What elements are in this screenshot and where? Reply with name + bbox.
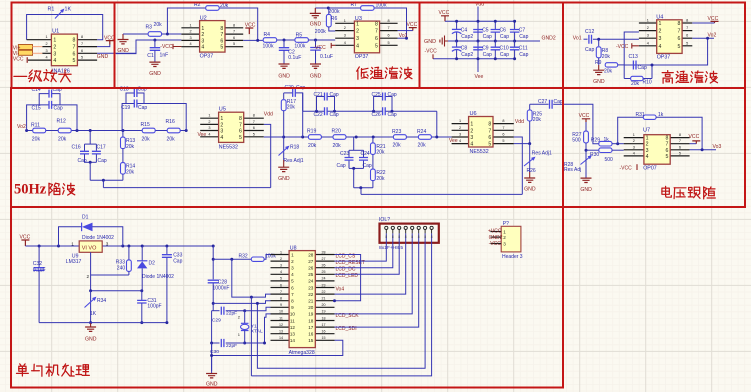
svg-text:8: 8 (73, 38, 76, 44)
svg-text:5: 5 (677, 44, 680, 50)
svg-text:U8: U8 (290, 246, 297, 252)
capacitor C28 column (208, 246, 230, 311)
svg-text:3: 3 (658, 36, 661, 42)
svg-text:1: 1 (208, 114, 210, 118)
svg-text:1: 1 (53, 38, 56, 44)
wire C28 node to pin7 (232, 259, 271, 297)
svg-text:20k: 20k (154, 22, 163, 28)
svg-text:R15: R15 (141, 122, 151, 128)
diode D1 loop (59, 227, 82, 246)
svg-text:7: 7 (686, 26, 688, 30)
svg-text:Diode 1N4002: Diode 1N4002 (142, 274, 174, 280)
svg-text:8: 8 (418, 235, 420, 239)
svg-text:6: 6 (280, 283, 282, 287)
input wire from C27 (563, 104, 599, 143)
svg-text:3: 3 (106, 241, 109, 246)
ground below R34 (90, 323, 92, 327)
R17 C20 chain (281, 93, 296, 137)
svg-text:U6: U6 (470, 111, 477, 117)
svg-text:6: 6 (239, 129, 242, 135)
svg-text:1: 1 (189, 23, 191, 27)
top rail (445, 20, 515, 22)
capacitor C14 loop (32, 87, 62, 105)
svg-text:C7: C7 (519, 28, 526, 34)
svg-text:3: 3 (189, 36, 191, 40)
svg-text:R19: R19 (307, 129, 317, 135)
svg-text:4: 4 (189, 42, 191, 46)
svg-text:3: 3 (53, 51, 56, 57)
svg-text:8: 8 (424, 235, 426, 239)
svg-text:500: 500 (572, 138, 581, 144)
ground below R8/R9 (598, 65, 600, 70)
svg-text:R31: R31 (636, 112, 645, 118)
op-amp U3 (335, 16, 397, 60)
resistor R21 vertical (371, 137, 386, 155)
svg-text:100k: 100k (294, 43, 305, 49)
svg-text:Cap: Cap (330, 92, 339, 98)
svg-text:3: 3 (646, 148, 649, 154)
op-amp U7 (624, 128, 690, 172)
wire pin6 to R4 (243, 39, 263, 41)
output wire Vo3 (690, 149, 716, 151)
svg-text:GND: GND (149, 71, 161, 77)
svg-text:C25: C25 (372, 92, 381, 98)
svg-text:Vee: Vee (449, 138, 458, 144)
svg-text:200k: 200k (329, 9, 340, 15)
svg-text:Vdd: Vdd (264, 111, 273, 117)
resistor R29 (591, 137, 612, 146)
svg-text:1k: 1k (658, 112, 664, 118)
svg-text:8: 8 (502, 119, 504, 123)
resistor R24 (417, 129, 431, 148)
svg-text:20k: 20k (167, 137, 176, 143)
svg-text:1: 1 (45, 35, 47, 39)
svg-text:8: 8 (677, 21, 680, 27)
svg-text:6: 6 (388, 34, 390, 38)
svg-text:C17: C17 (97, 145, 106, 151)
svg-text:R24: R24 (417, 129, 427, 135)
section label 低通滤波 (357, 67, 360, 71)
capacitor C6 (491, 20, 510, 43)
capacitor C20 loop (284, 85, 306, 111)
svg-text:Cap: Cap (138, 105, 147, 111)
diode D1 (82, 214, 115, 241)
resistor R4 (263, 32, 277, 49)
svg-text:Vo1: Vo1 (573, 36, 582, 42)
resistor R9 (595, 60, 618, 75)
svg-text:4: 4 (208, 132, 210, 136)
section label 高通滤波 (667, 71, 669, 72)
svg-text:U5: U5 (219, 107, 226, 113)
svg-text:C29: C29 (212, 317, 221, 323)
crystal Y1 (244, 311, 246, 324)
svg-text:6: 6 (375, 36, 378, 42)
svg-text:20k: 20k (126, 169, 135, 175)
svg-text:7: 7 (502, 126, 504, 130)
svg-text:GND: GND (85, 337, 97, 343)
svg-text:R11: R11 (31, 123, 40, 129)
svg-text:OP37: OP37 (200, 54, 214, 60)
svg-text:-VCC: -VCC (314, 45, 327, 51)
capacitor C19 loop (121, 100, 186, 131)
svg-text:1: 1 (503, 229, 506, 234)
ground top left of R6 (314, 8, 316, 13)
svg-text:-VCC: -VCC (620, 166, 633, 172)
notch bottom right link (354, 187, 373, 189)
svg-text:11: 11 (279, 316, 283, 320)
svg-text:VCC: VCC (689, 134, 700, 140)
svg-text:200k: 200k (315, 29, 326, 35)
port VI- (18, 50, 32, 55)
wire U5 pin5 to right rail (264, 136, 309, 138)
svg-text:9: 9 (280, 303, 282, 307)
svg-text:25: 25 (308, 272, 314, 277)
svg-text:24: 24 (308, 279, 314, 284)
svg-text:C19: C19 (121, 105, 130, 111)
svg-text:20k: 20k (142, 137, 151, 143)
wire pin7 to VCC (97, 45, 110, 47)
svg-text:19: 19 (308, 312, 314, 317)
svg-text:-VCC: -VCC (160, 44, 173, 50)
wire right node feedback from pin6 (651, 65, 653, 79)
svg-text:1: 1 (470, 122, 473, 128)
svg-text:0.1uF: 0.1uF (320, 54, 333, 60)
svg-text:Vee: Vee (198, 132, 207, 138)
svg-text:Vo1: Vo1 (399, 33, 408, 39)
resistor R33 vertical (116, 246, 132, 275)
capacitor C18 loop (120, 87, 147, 104)
wire R19-R20 (322, 136, 334, 138)
svg-text:C12: C12 (585, 29, 595, 35)
svg-text:U4: U4 (656, 15, 663, 21)
svg-text:6: 6 (73, 51, 76, 57)
svg-text:7: 7 (280, 290, 282, 294)
svg-text:GND: GND (278, 73, 290, 79)
capacitor C30 (212, 342, 220, 344)
svg-text:C32: C32 (33, 261, 42, 267)
resistor R15 (141, 122, 156, 143)
capacitor C2 (279, 40, 302, 64)
svg-text:10: 10 (290, 312, 296, 317)
svg-text:5: 5 (73, 58, 76, 64)
svg-text:OP37: OP37 (657, 54, 671, 60)
svg-text:C27: C27 (538, 99, 547, 105)
resistor R6 vertical (315, 8, 340, 35)
svg-text:6: 6 (666, 148, 669, 154)
svg-text:1: 1 (459, 119, 461, 123)
crystal cluster (206, 307, 271, 388)
svg-text:C9: C9 (482, 45, 489, 51)
svg-text:6: 6 (220, 38, 223, 44)
capacitor C22 in rail (314, 107, 339, 118)
svg-text:7: 7 (375, 29, 378, 35)
wire R9 to C13/R10 node (618, 64, 624, 66)
capacitor C12 (585, 29, 595, 53)
svg-text:12: 12 (290, 325, 296, 330)
wire R2 feedback top (167, 8, 205, 34)
svg-text:C4: C4 (461, 28, 468, 34)
svg-text:6: 6 (686, 34, 688, 38)
deep fanout wire 7 (257, 243, 425, 368)
ground below cluster (211, 343, 213, 374)
svg-text:50Hz: 50Hz (14, 182, 47, 198)
return wire right half (361, 193, 522, 195)
resistor R14 vertical (121, 149, 136, 181)
capacitor C7 (510, 20, 529, 43)
svg-text:3: 3 (459, 133, 461, 137)
svg-text:20k: 20k (287, 104, 296, 110)
wire R29 to U7 pin2 with R31 tap (612, 143, 624, 145)
svg-text:18: 18 (322, 316, 326, 320)
wire R20 to R23 (346, 136, 394, 138)
regulator U9 LM317 (66, 241, 109, 279)
resistor R3 (146, 22, 163, 36)
svg-text:U2: U2 (200, 15, 207, 21)
svg-text:7: 7 (677, 29, 680, 35)
svg-text:C10: C10 (500, 45, 509, 51)
wire GND to R3 (123, 33, 149, 35)
svg-text:5: 5 (488, 142, 491, 148)
svg-text:C23: C23 (340, 151, 349, 157)
wire notch bottom left (90, 179, 123, 181)
svg-text:R5: R5 (296, 33, 303, 39)
svg-text:Res Adj1: Res Adj1 (532, 151, 552, 157)
svg-text:7: 7 (666, 142, 669, 148)
resistor R13 vertical (121, 131, 136, 150)
svg-text:Y1: Y1 (251, 323, 257, 329)
capacitor C27 (530, 99, 563, 109)
svg-text:3: 3 (291, 266, 294, 271)
svg-text:17: 17 (322, 323, 326, 327)
wire Y1 to pin10 (245, 314, 271, 343)
resistor R30 (586, 148, 613, 163)
svg-text:6: 6 (233, 36, 235, 40)
svg-text:R34: R34 (97, 298, 106, 304)
bottom rail (39, 322, 167, 324)
capacitor C13 (624, 54, 652, 71)
svg-text:8: 8 (385, 235, 387, 239)
svg-text:5: 5 (280, 277, 282, 281)
capacitor C21 loop (314, 92, 339, 111)
svg-text:7: 7 (253, 120, 255, 124)
main 5V rail (25, 245, 79, 247)
svg-text:18: 18 (308, 318, 314, 323)
svg-text:C24: C24 (361, 151, 370, 157)
svg-text:Vo2: Vo2 (17, 124, 26, 130)
svg-text:-VCC: -VCC (489, 241, 502, 247)
section label 单片机处理 (20, 364, 21, 366)
svg-text:8: 8 (375, 21, 378, 27)
svg-text:21: 21 (322, 297, 326, 301)
svg-text:3: 3 (45, 49, 47, 53)
svg-text:Cap: Cap (388, 92, 397, 98)
svg-text:6: 6 (502, 133, 504, 137)
svg-text:VI VO: VI VO (82, 246, 97, 252)
capacitor C4 (452, 20, 473, 43)
svg-text:C21: C21 (314, 92, 323, 98)
svg-text:5: 5 (679, 151, 681, 155)
svg-text:4: 4 (470, 142, 473, 148)
svg-text:5: 5 (253, 132, 255, 136)
header fanout wires (335, 243, 387, 261)
svg-text:R10: R10 (643, 79, 652, 85)
svg-text:20k: 20k (126, 144, 135, 150)
ground below R26 (529, 172, 531, 178)
wire C12 to U4 pin3 (593, 38, 639, 40)
svg-text:28: 28 (308, 252, 314, 257)
svg-text:20: 20 (322, 303, 326, 307)
svg-text:20k: 20k (393, 142, 402, 148)
svg-text:1: 1 (291, 252, 294, 257)
svg-text:Cap: Cap (500, 34, 509, 40)
svg-text:8: 8 (81, 35, 83, 39)
svg-text:0.1uF: 0.1uF (33, 268, 46, 274)
svg-text:20: 20 (308, 305, 314, 310)
resistor R16 (166, 119, 181, 143)
ground below C1 (149, 62, 160, 66)
wire pink VI+ to pin2 (33, 46, 43, 48)
svg-text:20k: 20k (418, 142, 427, 148)
svg-text:5: 5 (388, 41, 390, 45)
svg-text:1: 1 (71, 241, 74, 246)
resistor R8 vertical (596, 39, 610, 65)
svg-text:GND: GND (580, 187, 592, 193)
svg-text:2: 2 (470, 128, 473, 134)
svg-text:8: 8 (291, 299, 294, 304)
svg-text:6: 6 (488, 135, 491, 141)
svg-text:8: 8 (679, 133, 681, 137)
svg-text:C22: C22 (314, 112, 323, 118)
svg-text:22: 22 (308, 292, 314, 297)
main rail left half (27, 130, 187, 132)
svg-text:NE5532: NE5532 (470, 149, 489, 155)
svg-text:2: 2 (646, 142, 649, 148)
svg-text:Cap: Cap (500, 52, 509, 58)
wire R7 feedback top (315, 7, 360, 9)
svg-text:3: 3 (356, 36, 359, 42)
svg-text:U1: U1 (52, 29, 59, 35)
svg-text:8: 8 (220, 26, 223, 32)
svg-text:25: 25 (322, 270, 326, 274)
wire LM317 adj pin2 (90, 252, 92, 290)
potentiometer R34 (85, 291, 107, 323)
svg-text:C6: C6 (500, 28, 507, 34)
svg-text:OP07: OP07 (643, 166, 657, 172)
svg-text:8: 8 (239, 116, 242, 122)
wire U6 pin6 down to return (514, 137, 523, 194)
svg-text:7: 7 (81, 42, 83, 46)
svg-text:4: 4 (459, 139, 461, 143)
svg-text:20k: 20k (308, 143, 317, 149)
capacitor C31 (137, 291, 161, 323)
svg-text:GND2: GND2 (489, 235, 503, 241)
op-amp U4 (639, 15, 692, 61)
resistor R27 vertical (572, 122, 588, 157)
capacitor C11 (510, 41, 529, 60)
svg-text:1K: 1K (65, 6, 72, 12)
mid rail GND2 (448, 40, 540, 42)
svg-text:Cap: Cap (337, 163, 346, 169)
svg-text:U7: U7 (643, 128, 650, 134)
svg-text:2: 2 (647, 26, 649, 30)
svg-text:Header 3: Header 3 (502, 254, 523, 260)
svg-text:C11: C11 (519, 45, 528, 51)
svg-text:26: 26 (322, 264, 326, 268)
section borders (12, 3, 115, 89)
wire pin8 row (213, 301, 270, 304)
IOL header connector (379, 217, 439, 251)
svg-text:Cap: Cap (363, 163, 372, 169)
svg-text:1: 1 (633, 133, 635, 137)
svg-text:C5: C5 (482, 28, 489, 34)
svg-text:8: 8 (431, 235, 433, 239)
svg-text:7: 7 (220, 32, 223, 38)
svg-text:2: 2 (344, 26, 346, 30)
capacitor C16/C17 loop down (72, 131, 107, 181)
resistor R12 (57, 119, 72, 143)
op-amp U2 (181, 15, 243, 59)
op-amp U1 (27, 29, 98, 75)
potentiometer R1 (48, 6, 72, 18)
resistor R32 (239, 254, 277, 262)
svg-text:C16: C16 (72, 145, 81, 151)
svg-text:7: 7 (388, 26, 390, 30)
resistor R20 (332, 129, 347, 149)
svg-text:2: 2 (503, 235, 506, 240)
svg-text:R16: R16 (166, 119, 176, 125)
U8 MCU Atmega328 (271, 246, 335, 357)
svg-text:8: 8 (388, 19, 390, 23)
svg-text:1: 1 (201, 26, 204, 32)
svg-text:20k: 20k (58, 137, 67, 143)
svg-text:5: 5 (239, 135, 242, 141)
svg-text:1: 1 (658, 21, 661, 27)
svg-text:5: 5 (233, 42, 235, 46)
svg-text:20k: 20k (376, 149, 385, 155)
svg-text:1K: 1K (90, 311, 97, 317)
svg-text:R4: R4 (264, 32, 271, 38)
svg-text:2: 2 (220, 122, 223, 128)
svg-text:20k: 20k (220, 3, 229, 9)
capacitor C33 (162, 246, 183, 323)
svg-text:7: 7 (239, 122, 242, 128)
wire pin28 to pin21 link (335, 255, 361, 301)
svg-text:-VCC: -VCC (425, 49, 438, 55)
svg-text:4: 4 (658, 44, 661, 50)
svg-text:1: 1 (356, 21, 359, 27)
svg-text:Cap: Cap (330, 112, 339, 118)
deep fanout wire 8 (251, 243, 431, 376)
svg-text:23: 23 (308, 285, 314, 290)
svg-text:GND: GND (97, 54, 109, 60)
svg-text:3: 3 (633, 145, 635, 149)
svg-text:20k: 20k (376, 176, 385, 182)
svg-text:3: 3 (470, 135, 473, 141)
svg-text:2: 2 (87, 274, 90, 279)
svg-text:2: 2 (356, 29, 359, 35)
svg-text:IOL?: IOL? (379, 217, 390, 223)
svg-text:XTAL: XTAL (251, 329, 263, 335)
wire down from pin7 node (250, 297, 252, 376)
capacitor C10 (491, 41, 510, 60)
svg-text:100pF: 100pF (147, 303, 161, 309)
svg-text:500: 500 (605, 157, 614, 163)
wire from section1 to pin3 and C1 (116, 40, 181, 54)
svg-text:20k: 20k (533, 117, 542, 123)
svg-text:7: 7 (679, 139, 681, 143)
ground GND left of R3 (122, 34, 124, 40)
svg-text:C26: C26 (372, 112, 381, 118)
